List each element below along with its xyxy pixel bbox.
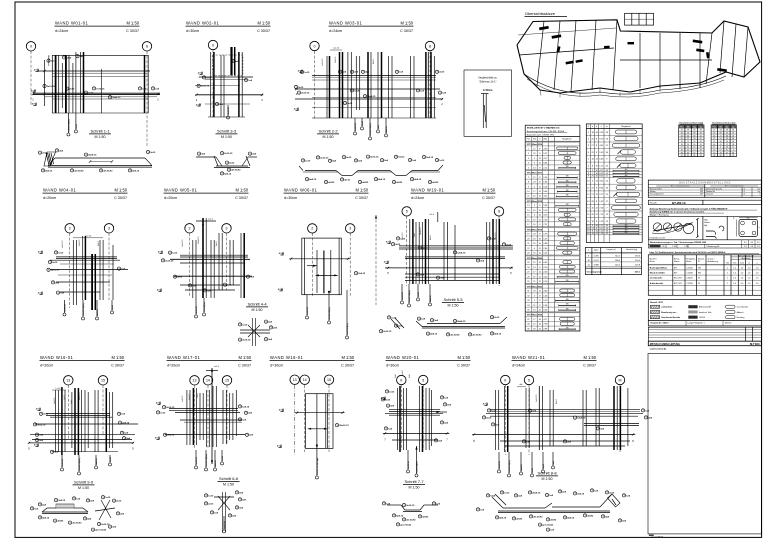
svg-text:79: 79: [687, 130, 689, 132]
svg-text:66: 66: [732, 138, 734, 140]
svg-text:4ø8-15: 4ø8-15: [396, 514, 404, 517]
svg-text:Stk: Stk: [726, 262, 729, 265]
svg-text:cmin: cmin: [733, 263, 737, 265]
svg-text:C 30/37: C 30/37: [482, 196, 495, 200]
svg-text:47: 47: [713, 147, 715, 149]
svg-text:ø8-R2: ø8-R2: [587, 515, 594, 517]
svg-text:0.888: 0.888: [594, 264, 600, 266]
svg-text:20ø12-15 zw.Lage: 20ø12-15 zw.Lage: [317, 457, 319, 475]
svg-text:67: 67: [700, 138, 702, 140]
svg-text:2ø8-15: 2ø8-15: [358, 273, 366, 275]
svg-text:20ø8-15: 20ø8-15: [457, 321, 466, 323]
svg-text:60: 60: [732, 130, 734, 132]
svg-text:85: 85: [693, 155, 695, 157]
svg-text:6ø12-15: 6ø12-15: [196, 305, 198, 313]
svg-text:20ø12-15: 20ø12-15: [339, 425, 349, 427]
section title Schnitt 7-7: [403, 479, 425, 489]
svg-text:Durchmesserliste ø (m): Durchmesserliste ø (m): [712, 121, 735, 124]
svg-text:385: 385: [625, 172, 628, 174]
svg-text:3: 3: [349, 227, 351, 231]
svg-text:1.0: 1.0: [748, 283, 751, 285]
svg-text:0.395: 0.395: [594, 255, 600, 257]
svg-text:6ø12-15: 6ø12-15: [228, 106, 230, 114]
svg-text:385: 385: [625, 169, 628, 171]
wall plan W06: [278, 233, 366, 296]
svg-text:Länge (m): Länge (m): [606, 249, 615, 251]
svg-text:2ø10: 2ø10: [609, 492, 615, 494]
svg-text:1.0: 1.0: [748, 273, 751, 275]
svg-text:d=20cm: d=20cm: [164, 196, 177, 200]
svg-text:28: 28: [700, 149, 702, 151]
svg-text:8ø8-15: 8ø8-15: [521, 463, 523, 470]
svg-text:16: 16: [693, 144, 695, 146]
section title Schnitt 8-8: [536, 471, 558, 481]
svg-text:46: 46: [713, 144, 715, 146]
svg-text:ø8-R2: ø8-R2: [516, 518, 523, 520]
svg-text:1ø10: 1ø10: [58, 252, 64, 254]
svg-text:5: 5: [406, 210, 408, 214]
materials note line: [650, 251, 760, 254]
svg-text:188.0: 188.0: [615, 260, 621, 262]
svg-text:14ø8-15: 14ø8-15: [420, 227, 422, 235]
svg-text:58: 58: [681, 135, 683, 137]
title WAND W21-01: [512, 355, 597, 368]
svg-text:Altbestand BT: Altbestand BT: [699, 306, 712, 309]
svg-text:10ø12-15(2x): 10ø12-15(2x): [370, 123, 372, 136]
hanging rebar marks W04: [63, 300, 114, 320]
mesh schedule table left: [679, 121, 704, 157]
svg-text:4.5: 4.5: [744, 242, 747, 244]
svg-text:5ø8-15: 5ø8-15: [335, 56, 337, 63]
svg-text:4ø8-15: 4ø8-15: [42, 516, 50, 519]
wall plan W02: [195, 47, 263, 119]
svg-text:385: 385: [625, 175, 628, 177]
svg-text:Zusatz /: Zusatz /: [708, 257, 715, 260]
svg-text:0.617: 0.617: [594, 260, 600, 262]
svg-text:Schnitt 5-5: Schnitt 5-5: [443, 297, 463, 302]
wall plan W20: [381, 370, 452, 452]
svg-text:BT1: BT1: [674, 267, 677, 269]
svg-text:C 30/37: C 30/37: [238, 364, 251, 368]
empty drawing panel: [648, 354, 761, 534]
svg-text:M 1:50: M 1:50: [221, 135, 232, 139]
svg-text:1ø8-15: 1ø8-15: [182, 395, 184, 402]
svg-text:BT 7 Wand W22: BT 7 Wand W22: [527, 315, 543, 317]
svg-text:10ø12-15(2x): 10ø12-15(2x): [79, 458, 81, 471]
axis circle 15 (W17): [222, 376, 231, 385]
svg-text:M 1:50: M 1:50: [223, 483, 234, 487]
svg-text:10ø12-15(2x): 10ø12-15(2x): [329, 307, 331, 320]
svg-text:2ø10: 2ø10: [298, 87, 304, 89]
svg-text:55: 55: [687, 149, 689, 151]
svg-text:10: 10: [693, 147, 695, 149]
exposure classes table: [648, 255, 761, 296]
svg-text:58: 58: [700, 141, 702, 143]
svg-text:Telefon:: Telefon:: [725, 323, 732, 325]
svg-text:2ø10: 2ø10: [439, 72, 445, 74]
svg-text:385: 385: [566, 304, 569, 306]
svg-text:0: 0: [314, 44, 316, 48]
svg-text:1ø10: 1ø10: [105, 497, 111, 499]
svg-text:Schnitt 8-8: Schnitt 8-8: [537, 471, 557, 476]
svg-text:Schnitt 7-7: Schnitt 7-7: [404, 479, 424, 484]
svg-text:34: 34: [681, 141, 683, 143]
hanging rebar marks W21: [498, 452, 555, 477]
axis circle 3 (W06): [346, 224, 355, 233]
address line: [650, 348, 667, 351]
svg-text:66: 66: [687, 135, 689, 137]
svg-text:Gesamtgewicht: Gesamtgewicht: [587, 270, 603, 273]
axis circle 0 (W21): [501, 375, 510, 384]
svg-text:BT 2 Wand W17: BT 2 Wand W17: [527, 173, 543, 175]
cross-section 1-1: [38, 149, 156, 173]
section title Schnitt 2-2: [317, 129, 339, 139]
svg-text:ø8-15-R2: ø8-15-R2: [450, 334, 460, 336]
svg-text:OK/UK: OK/UK: [699, 317, 706, 319]
axis circle 5 (W20): [419, 375, 428, 384]
firm name row: [648, 341, 761, 346]
svg-text:385: 385: [566, 275, 569, 277]
svg-text:63: 63: [713, 135, 715, 137]
axis circle 13 (W18): [290, 375, 299, 384]
svg-text:2ø10-15: 2ø10-15: [406, 505, 415, 507]
svg-text:44: 44: [720, 141, 722, 143]
svg-text:5: 5: [528, 378, 530, 382]
svg-text:3ø8-15: 3ø8-15: [58, 500, 66, 502]
axis circle 3 (W05): [222, 224, 231, 233]
svg-text:M 1:50: M 1:50: [257, 21, 270, 26]
svg-text:1ø10: 1ø10: [304, 72, 310, 74]
svg-text:13: 13: [726, 133, 728, 135]
svg-text:Bewehrung neu –: Bewehrung neu –: [661, 312, 678, 314]
building core marks: [539, 26, 727, 72]
svg-text:1.0: 1.0: [756, 267, 759, 269]
svg-text:2ø10: 2ø10: [42, 153, 48, 155]
svg-text:Pos: Pos: [527, 139, 530, 141]
svg-text:L=2.4: L=2.4: [214, 366, 219, 368]
axis circle 3 (W04): [104, 224, 113, 233]
svg-text:2ø10-15: 2ø10-15: [201, 86, 210, 88]
svg-text:4ø8-15: 4ø8-15: [494, 332, 502, 335]
svg-text:57: 57: [681, 147, 683, 149]
section title Schnitt 4-4: [246, 302, 268, 312]
svg-text:M 1:50: M 1:50: [323, 135, 334, 139]
svg-text:2ø10-15: 2ø10-15: [165, 260, 174, 262]
svg-text:20ø8-15: 20ø8-15: [112, 97, 121, 99]
svg-text:59: 59: [713, 149, 715, 151]
svg-text:10ø12: 10ø12: [398, 157, 405, 159]
svg-text:bewehrte Teile: bewehrte Teile: [699, 311, 711, 314]
svg-text:9: 9: [726, 155, 727, 157]
svg-text:1.0: 1.0: [756, 283, 759, 285]
svg-text:1ø10: 1ø10: [160, 412, 166, 414]
svg-text:M 1:50: M 1:50: [235, 188, 248, 193]
svg-text:26: 26: [693, 141, 695, 143]
svg-text:1ø10: 1ø10: [305, 160, 311, 162]
svg-text:Gewicht (kg): Gewicht (kg): [626, 248, 638, 251]
svg-text:b₀: b₀: [733, 218, 735, 220]
svg-text:L=1.0: L=1.0: [56, 388, 61, 390]
svg-text:1: 1: [727, 283, 728, 285]
svg-text:BT2, BT1: BT2, BT1: [674, 283, 682, 285]
axis circle 14 (W18): [300, 375, 309, 384]
svg-text:1ø10: 1ø10: [389, 391, 395, 393]
svg-text:ø8-R2: ø8-R2: [57, 521, 64, 523]
svg-text:ø8-R2: ø8-R2: [396, 182, 403, 184]
svg-text:Bodenplatte/Wand: Bodenplatte/Wand: [650, 266, 668, 269]
axis circle 2 (W04): [65, 224, 74, 233]
svg-text:2ø8-15: 2ø8-15: [167, 435, 175, 437]
axis circle M (W21): [615, 375, 624, 384]
title WAND W03-01: [329, 21, 414, 34]
svg-text:2ø10-15: 2ø10-15: [383, 331, 392, 333]
svg-text:Innenbauteile: Innenbauteile: [650, 277, 663, 280]
svg-text:1: 1: [727, 273, 728, 275]
svg-text:385: 385: [566, 308, 569, 310]
svg-text:47: 47: [700, 155, 702, 157]
legend box Vergleichbild: [464, 70, 512, 136]
svg-text:6ø12-15: 6ø12-15: [62, 458, 64, 466]
svg-text:10ø12-15(2x): 10ø12-15(2x): [206, 454, 208, 467]
svg-text:15: 15: [327, 378, 331, 382]
svg-text:385: 385: [566, 204, 569, 206]
svg-text:C 30/37: C 30/37: [114, 196, 127, 200]
svg-text:1ø10: 1ø10: [242, 324, 248, 326]
svg-text:385: 385: [566, 190, 569, 192]
svg-text:Anforderung: Anforderung: [708, 260, 718, 263]
svg-text:1.0: 1.0: [733, 273, 736, 275]
svg-text:klasse: klasse: [686, 261, 691, 263]
svg-text:1ø12-15: 1ø12-15: [495, 232, 497, 240]
svg-text:1ø12-15: 1ø12-15: [536, 394, 538, 402]
wall plan W21: [472, 384, 653, 455]
svg-text:92: 92: [681, 155, 683, 157]
plan number row: [648, 200, 761, 205]
svg-text:d=24cm: d=24cm: [512, 364, 525, 368]
title WAND W05-01: [164, 188, 249, 201]
wall plan W03: [294, 48, 447, 120]
svg-text:56: 56: [726, 138, 728, 140]
svg-text:Vergabe-Nr.: 04/117: Vergabe-Nr.: 04/117: [650, 322, 669, 325]
svg-text:C25/30: C25/30: [687, 267, 693, 269]
svg-text:4ø8-15: 4ø8-15: [499, 516, 507, 519]
svg-text:ø8-15-R2: ø8-15-R2: [533, 516, 543, 518]
svg-text:4ø10: 4ø10: [88, 92, 94, 95]
svg-text:3ø12: 3ø12: [177, 277, 183, 279]
svg-text:36: 36: [700, 133, 702, 135]
svg-text:ø8-15-R2: ø8-15-R2: [74, 170, 84, 172]
svg-text:L=1.20: L=1.20: [333, 48, 339, 50]
svg-text:Schnitt 3-3: Schnitt 3-3: [217, 129, 237, 134]
svg-text:78: 78: [700, 130, 702, 132]
svg-text:3: 3: [226, 227, 228, 231]
svg-text:C 30/37: C 30/37: [341, 364, 354, 368]
svg-text:M 1:50: M 1:50: [114, 188, 127, 193]
svg-text:4ø8-15: 4ø8-15: [224, 172, 232, 175]
svg-text:4.5: 4.5: [757, 242, 760, 244]
svg-text:1ø10: 1ø10: [208, 495, 214, 497]
svg-text:M 1:50: M 1:50: [78, 486, 89, 490]
title WAND W16-01: [40, 355, 125, 368]
cross-section 3-3: [196, 152, 257, 176]
axis circle 5 (W19): [402, 207, 411, 216]
svg-text:L=2.10: L=2.10: [85, 235, 91, 237]
svg-text:Pos: Pos: [680, 127, 683, 129]
svg-text:51: 51: [732, 133, 734, 135]
svg-text:Nachtrag: Nachtrag: [737, 316, 745, 319]
svg-text:80: 80: [732, 152, 734, 154]
svg-text:1.0: 1.0: [733, 267, 736, 269]
svg-text:M 1:50: M 1:50: [457, 355, 470, 360]
svg-text:385: 385: [566, 299, 569, 301]
svg-text:WAND W17-01: WAND W17-01: [167, 355, 201, 360]
svg-text:12ø8-15: 12ø8-15: [457, 252, 466, 254]
svg-text:MST-BAU GMBH LEITUNG: MST-BAU GMBH LEITUNG: [650, 343, 680, 346]
sheet code text: [649, 535, 664, 539]
title WAND W17-01: [167, 355, 252, 368]
svg-text:12ø8: 12ø8: [490, 495, 496, 497]
svg-text:9: 9: [498, 210, 500, 214]
svg-text:lfdm: lfdm: [543, 139, 547, 141]
svg-text:Außenbauteile: Außenbauteile: [650, 282, 664, 285]
svg-text:ø8-R2: ø8-R2: [550, 519, 557, 521]
svg-text:21: 21: [720, 135, 722, 137]
svg-text:ø8-R2: ø8-R2: [328, 182, 335, 184]
svg-text:klasse: klasse: [674, 261, 679, 263]
svg-text:Stk: Stk: [533, 138, 536, 141]
svg-text:BT-W2.10: BT-W2.10: [672, 201, 686, 205]
svg-text:C 30/37: C 30/37: [111, 364, 124, 368]
title WAND W01-01: [55, 21, 140, 34]
section title Schnitt 1-1: [89, 129, 111, 139]
svg-text:kg/m: kg/m: [594, 250, 599, 252]
svg-text:39: 39: [687, 152, 689, 154]
wall plan W05: [157, 218, 255, 298]
svg-text:Biegerollen gem. DIN EN 1992: Biegerollen gem. DIN EN 1992: [527, 134, 555, 136]
axis circle 2 (W06): [308, 224, 317, 233]
svg-text:2: 2: [69, 227, 71, 231]
svg-text:Typ: Typ: [693, 127, 696, 129]
svg-text:2ø10: 2ø10: [208, 503, 214, 505]
svg-text:129.8: 129.8: [635, 264, 641, 266]
svg-text:1ø12-15: 1ø12-15: [322, 58, 324, 66]
svg-text:C 30/37: C 30/37: [355, 196, 368, 200]
svg-text:Platzierung 40: Platzierung 40: [707, 245, 721, 248]
svg-text:Rundstäbe einzeln: Rundstäbe einzeln: [650, 237, 666, 240]
svg-text:385: 385: [566, 195, 569, 197]
svg-text:W: W: [698, 283, 700, 285]
svg-text:M 1:50: M 1:50: [583, 355, 596, 360]
svg-text:L=1.6: L=1.6: [208, 219, 213, 221]
svg-text:67: 67: [726, 152, 728, 154]
svg-text:neue Bauteile: neue Bauteile: [737, 306, 749, 309]
svg-text:8ø12-15: 8ø12-15: [231, 64, 233, 72]
svg-text:1.0: 1.0: [741, 267, 744, 269]
svg-text:WAND W18-01: WAND W18-01: [270, 355, 304, 360]
steel totals table C: [585, 248, 641, 275]
svg-text:4.5: 4.5: [750, 242, 753, 244]
svg-text:M 1:50: M 1:50: [238, 355, 251, 360]
section title Schnitt 6-6: [218, 476, 240, 486]
svg-text:1.0: 1.0: [741, 278, 744, 280]
svg-text:1.0: 1.0: [756, 278, 759, 280]
axis circle 6 (W01 right): [142, 42, 151, 51]
svg-text:kg: kg: [732, 127, 734, 129]
hanging rebar marks W06: [306, 215, 378, 339]
svg-text:6: 6: [146, 45, 148, 49]
svg-text:bestehende Bauteile: bestehende Bauteile: [661, 316, 681, 319]
svg-text:2: 2: [189, 227, 191, 231]
svg-text:Anordnung: Anordnung: [742, 257, 751, 260]
svg-text:d=30cm: d=30cm: [284, 196, 297, 200]
svg-text:3: 3: [108, 227, 110, 231]
svg-text:ø8-15: ø8-15: [344, 179, 350, 181]
svg-text:d=24cm: d=24cm: [411, 196, 424, 200]
svg-text:10ø12-15(2x): 10ø12-15(2x): [409, 290, 411, 303]
svg-text:5ø8-15: 5ø8-15: [79, 239, 81, 246]
svg-text:2ø8-15: 2ø8-15: [122, 423, 130, 425]
svg-text:2ø10: 2ø10: [52, 262, 58, 264]
svg-text:539.1: 539.1: [635, 271, 641, 273]
axis circle 2 (W05): [185, 224, 194, 233]
title block notes text: [650, 207, 758, 216]
cross-section 5-5: [379, 316, 507, 337]
svg-text:d=30cm: d=30cm: [186, 29, 199, 33]
svg-text:M 1:50: M 1:50: [355, 188, 368, 193]
svg-text:14ø8-15: 14ø8-15: [198, 236, 200, 244]
svg-text:1.2: 1.2: [742, 194, 745, 196]
svg-text:50: 50: [713, 152, 715, 154]
svg-text:57: 57: [720, 149, 722, 151]
title WAND W06-01: [284, 188, 369, 201]
svg-text:6ø12-15: 6ø12-15: [196, 456, 198, 464]
axis circle 0 (W20): [397, 375, 406, 384]
svg-text:1ø12-15: 1ø12-15: [402, 232, 404, 240]
cross-section 7-7: [382, 502, 440, 527]
hanging rebar mark W01: [67, 113, 78, 136]
svg-text:14ø8: 14ø8: [354, 89, 360, 92]
svg-text:gem.Statik: gem.Statik: [542, 524, 554, 527]
svg-text:2ø10: 2ø10: [116, 501, 122, 503]
svg-text:385: 385: [566, 166, 569, 168]
svg-text:20: 20: [700, 152, 702, 154]
wall plan W17: [155, 366, 254, 464]
svg-text:6ø12: 6ø12: [229, 163, 235, 165]
svg-text:42: 42: [681, 130, 683, 132]
svg-text:385: 385: [625, 232, 628, 234]
svg-text:0: 0: [400, 378, 402, 382]
svg-text:Bgl.: Bgl.: [704, 225, 708, 227]
svg-text:2ø10: 2ø10: [486, 417, 492, 419]
svg-text:BT 4 Wand W19: BT 4 Wand W19: [527, 228, 543, 231]
svg-text:ø8-15-R2: ø8-15-R2: [472, 334, 482, 336]
svg-text:8ø12-15: 8ø12-15: [79, 392, 81, 400]
axis circle D (W02): [208, 40, 217, 49]
svg-text:Durchmesserliste ø (kg): Durchmesserliste ø (kg): [679, 121, 703, 124]
title block header BAUSTAHLZUSAMMENSTELLUNG: [648, 180, 761, 197]
svg-text:Schnitt 2-2: Schnitt 2-2: [318, 129, 338, 134]
overview sketch title: [525, 11, 568, 17]
svg-text:4ø8-15: 4ø8-15: [132, 169, 140, 172]
svg-text:2ø10: 2ø10: [506, 244, 512, 246]
hanging rebar marks W20: [407, 446, 419, 477]
svg-text:2ø10: 2ø10: [150, 152, 156, 154]
svg-text:13: 13: [193, 379, 197, 383]
svg-text:1ø10: 1ø10: [391, 317, 397, 319]
svg-text:1ø10: 1ø10: [491, 410, 497, 412]
svg-text:C25/30: C25/30: [687, 273, 693, 275]
svg-text:d=20cm: d=20cm: [40, 364, 53, 368]
